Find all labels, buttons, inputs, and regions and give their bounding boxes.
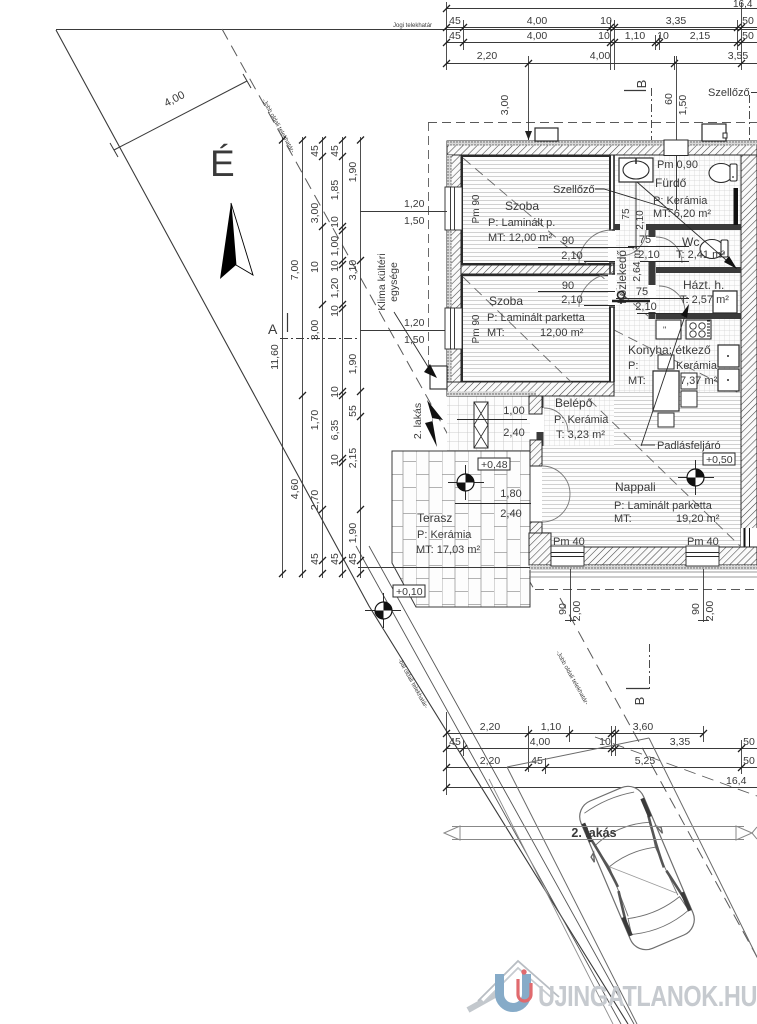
window dim vertical left — [557, 569, 583, 622]
svg-text:P: Kerámia: P: Kerámia — [554, 414, 609, 426]
svg-text:10: 10 — [329, 305, 341, 317]
svg-text:55: 55 — [347, 405, 359, 417]
svg-text:T: 2,41 m²: T: 2,41 m² — [676, 249, 725, 261]
svg-text:1,20: 1,20 — [404, 317, 425, 329]
window W1 — [445, 187, 462, 230]
svg-text:MT:: MT: — [487, 327, 505, 339]
window W2 — [445, 308, 462, 349]
svg-text:5,25: 5,25 — [635, 755, 656, 767]
survey marker boundary corner — [365, 593, 401, 628]
bottom chain labels row3 — [480, 755, 755, 767]
logo roof — [481, 962, 556, 999]
eaves dashed horizontal — [428, 122, 757, 124]
B section mark bottom — [626, 644, 650, 705]
svg-text:Kerámia: Kerámia — [676, 360, 718, 372]
svg-text:egysége: egysége — [388, 262, 400, 302]
top chain labels row2 — [449, 30, 754, 42]
furdo sink — [619, 158, 653, 248]
svg-text:7,37 m²: 7,37 m² — [680, 375, 718, 387]
svg-text:7,00: 7,00 — [289, 260, 301, 281]
svg-text:+0,10: +0,10 — [396, 586, 423, 598]
svg-text:2,40: 2,40 — [503, 427, 524, 439]
kitchen fridge cabinets — [718, 345, 739, 391]
klima outdoor unit — [430, 366, 447, 389]
szoba2 door jambs — [609, 274, 615, 307]
door marker circle — [618, 292, 625, 299]
svg-text:3,35: 3,35 — [666, 15, 687, 27]
svg-text:Szoba: Szoba — [489, 294, 523, 308]
svg-text:1,90: 1,90 — [347, 162, 359, 183]
parking second left line — [489, 779, 613, 1024]
svg-text:T: 3,23 m²: T: 3,23 m² — [556, 429, 605, 441]
bottom window BW2 — [686, 546, 719, 566]
svg-text:75: 75 — [621, 208, 632, 220]
svg-text:10: 10 — [329, 454, 341, 466]
svg-text:90: 90 — [562, 235, 574, 247]
svg-text:2,10: 2,10 — [561, 250, 582, 262]
svg-text:P:: P: — [628, 360, 638, 372]
bottom window BW1 — [551, 546, 584, 566]
svg-text:Közlekedő: Közlekedő — [617, 250, 629, 304]
wc door arc — [656, 237, 682, 263]
svg-text:2,00: 2,00 — [571, 601, 583, 622]
svg-text:2. lakás: 2. lakás — [571, 826, 616, 840]
svg-text:3,60: 3,60 — [633, 721, 654, 733]
svg-text:45: 45 — [309, 553, 321, 565]
bottom dimension chain lines — [446, 712, 757, 795]
svg-text:MT:: MT: — [614, 513, 632, 525]
svg-text:MT: 12,00 m²: MT: 12,00 m² — [488, 232, 553, 244]
right wall window gap — [741, 528, 757, 553]
belepo door arc — [544, 408, 568, 432]
left chain top ticks — [279, 137, 364, 578]
svg-text:2,10: 2,10 — [635, 210, 646, 230]
szellozo duct diagonal arrow — [637, 182, 733, 266]
svg-text:10: 10 — [657, 30, 669, 42]
furdo-wc wall — [614, 224, 741, 230]
door dim kitchen: 75/2,10 — [635, 286, 656, 313]
svg-text:10: 10 — [329, 216, 341, 228]
belepo left wall — [537, 396, 544, 446]
klima leader arrow — [394, 312, 430, 370]
svg-text:1,20: 1,20 — [329, 278, 341, 299]
svg-text:50: 50 — [742, 15, 754, 27]
site boundary north line — [56, 29, 757, 31]
parking left edge — [507, 767, 637, 1024]
svg-text:12,00 m²: 12,00 m² — [540, 327, 584, 339]
svg-text:Konyha: étkező: Konyha: étkező — [628, 343, 711, 357]
svg-text:3,35: 3,35 — [670, 736, 691, 748]
left wall insulation — [447, 155, 452, 396]
svg-text:Szellőző: Szellőző — [553, 184, 595, 196]
bottom wall corner pier — [529, 533, 551, 565]
svg-text:90: 90 — [690, 603, 702, 615]
roof hip dashed szoba2-nappali — [463, 277, 740, 546]
2.lakas banner band — [444, 826, 757, 840]
svg-text:1,10: 1,10 — [625, 30, 646, 42]
svg-text:Fürdő: Fürdő — [655, 176, 687, 190]
fence strip line 2 — [369, 546, 634, 1024]
shower dark bar — [734, 188, 739, 225]
svg-text:3,10: 3,10 — [347, 260, 359, 281]
watermark logo — [468, 961, 757, 1013]
top wall insulation — [447, 141, 757, 146]
B section dashdot top — [651, 88, 653, 140]
parking right edge — [649, 738, 757, 1024]
szoba1 floor — [461, 155, 610, 265]
svg-text:Pm 90: Pm 90 — [471, 314, 482, 343]
svg-text:1,70: 1,70 — [309, 410, 321, 431]
dashed SE diagonal boundary — [222, 29, 535, 591]
svg-text:10: 10 — [600, 15, 612, 27]
svg-text:MT:: MT: — [628, 375, 646, 387]
mid wall between szoba — [461, 265, 614, 274]
svg-text:1,90: 1,90 — [347, 354, 359, 375]
dashed boundary continues lower right — [560, 598, 757, 957]
level +0,48 — [478, 458, 510, 471]
shallow dashed SE — [595, 737, 757, 796]
svg-text:Belépő: Belépő — [555, 396, 593, 410]
svg-text:P: Laminált p.: P: Laminált p. — [488, 217, 555, 229]
svg-text:90: 90 — [562, 280, 574, 292]
szoba1 door jambs — [609, 230, 615, 263]
svg-text:1,00: 1,00 — [503, 405, 524, 417]
rooms right wall — [610, 155, 614, 382]
top wall — [447, 141, 757, 155]
west plot boundary line — [56, 30, 628, 1024]
bottom wall sill band — [529, 565, 757, 570]
svg-text:Klima kültéri: Klima kültéri — [376, 253, 388, 310]
svg-text:P: Laminált parketta: P: Laminált parketta — [487, 312, 586, 324]
svg-text:45: 45 — [347, 553, 359, 565]
svg-text:Jogi telekhatár: Jogi telekhatár — [393, 23, 432, 29]
svg-text:11,60: 11,60 — [269, 344, 281, 370]
window dim end dashes — [565, 620, 709, 622]
belepo floor — [544, 396, 614, 446]
svg-text:P: Kerámia: P: Kerámia — [653, 195, 708, 207]
nappali floor — [542, 392, 741, 547]
top chain ticks — [443, 5, 745, 67]
svg-text:+0,48: +0,48 — [481, 459, 508, 471]
terrace-nappali wall lower — [530, 522, 542, 547]
svg-text:45: 45 — [309, 145, 321, 157]
svg-text:MT: 17,03 m²: MT: 17,03 m² — [416, 544, 481, 556]
porch ladder box — [474, 402, 488, 448]
left wall — [447, 155, 461, 396]
hazt-konyha wall — [656, 313, 741, 319]
terrace-nappali wall upper — [530, 440, 542, 466]
svg-text:UJINGATLANOK.HU: UJINGATLANOK.HU — [538, 981, 757, 1013]
svg-text:2,15: 2,15 — [347, 448, 359, 469]
svg-text:Szoba: Szoba — [505, 199, 539, 213]
svg-text:2,10: 2,10 — [635, 301, 656, 313]
terrace floor — [392, 451, 530, 607]
szoba2 door arc — [579, 274, 612, 307]
svg-text:4,00: 4,00 — [530, 736, 551, 748]
svg-text:6,35: 6,35 — [329, 420, 341, 441]
szoba2 border — [462, 275, 610, 382]
x528 arrowhead — [525, 131, 532, 140]
survey marker nappali — [678, 460, 714, 495]
left chain labels — [269, 145, 359, 565]
fence strip line 1 — [356, 546, 621, 1024]
hazt floor — [656, 273, 741, 313]
svg-text:19,20 m²: 19,20 m² — [676, 513, 720, 525]
svg-text:2. lakás: 2. lakás — [412, 403, 424, 439]
right wall — [741, 155, 757, 569]
szellozo dashdot right — [749, 95, 751, 140]
door dim belepo 1,00/2,40 — [503, 405, 524, 439]
parking top edge — [507, 738, 649, 767]
svg-text:16,4: 16,4 — [726, 775, 747, 787]
level +0,10 — [393, 585, 425, 598]
logo red accent — [521, 969, 526, 974]
svg-text:2,10: 2,10 — [561, 294, 582, 306]
roof vent box 1 — [535, 128, 558, 141]
svg-text:45: 45 — [329, 553, 341, 565]
svg-text:1,90: 1,90 — [347, 523, 359, 544]
svg-text:10: 10 — [329, 260, 341, 272]
svg-text:10: 10 — [309, 261, 321, 273]
svg-text:2,40: 2,40 — [500, 508, 521, 520]
W1 dim leader — [360, 211, 447, 213]
top dimension chain lines — [446, 2, 757, 140]
terrace double door arcs — [542, 466, 570, 522]
door dim szoba1: 90/2,10 — [561, 235, 582, 262]
logo swoosh left — [468, 991, 502, 1010]
porch pier — [529, 396, 542, 414]
svg-text:Terasz: Terasz — [417, 511, 452, 525]
window dim vertical right — [690, 569, 716, 622]
north arrow — [220, 203, 253, 279]
kozlekedo floor — [614, 224, 648, 319]
svg-text:50: 50 — [742, 30, 754, 42]
chairs — [658, 355, 697, 427]
svg-text:2,10: 2,10 — [638, 249, 659, 261]
svg-text:1,80: 1,80 — [500, 488, 521, 500]
eaves dashed bottom horizontal — [535, 589, 757, 591]
svg-text:B: B — [634, 80, 649, 89]
svg-text:1,50: 1,50 — [677, 95, 689, 116]
svg-text:Szellőző: Szellőző — [708, 87, 750, 99]
wc-hazt wall — [656, 267, 741, 273]
furdo floor — [614, 155, 741, 224]
terrace south level line — [358, 567, 530, 569]
svg-text:2,20: 2,20 — [477, 50, 498, 62]
svg-text:10: 10 — [598, 30, 610, 42]
logo U blue — [500, 974, 527, 1008]
svg-text:4,60: 4,60 — [289, 479, 301, 500]
wc floor — [656, 230, 741, 267]
hazt washer — [713, 291, 737, 313]
svg-text:3,00: 3,00 — [309, 203, 321, 224]
svg-text:Pm 0,90: Pm 0,90 — [657, 159, 698, 171]
szoba2 door gap — [608, 274, 616, 307]
svg-text:1,50: 1,50 — [404, 215, 425, 227]
svg-text:MT: 6,20 m²: MT: 6,20 m² — [653, 208, 711, 220]
wc toilet — [700, 240, 728, 259]
svg-text:4,00: 4,00 — [590, 50, 611, 62]
svg-text:3,55: 3,55 — [728, 50, 749, 62]
svg-text:": " — [663, 325, 666, 335]
szoba1 border — [462, 156, 610, 264]
svg-text:4,00: 4,00 — [527, 30, 548, 42]
car — [571, 780, 703, 957]
svg-text:Pm 90: Pm 90 — [471, 194, 482, 223]
svg-text:50: 50 — [743, 736, 755, 748]
svg-text:+0,50: +0,50 — [706, 454, 733, 466]
bottom chain labels row1 — [480, 721, 654, 733]
konyha floor — [614, 319, 741, 392]
dining table — [653, 371, 679, 411]
szoba1 door gap — [608, 230, 616, 263]
svg-text:Házt. h.: Házt. h. — [683, 278, 724, 292]
svg-text:B: B — [632, 697, 647, 706]
kitchen counter sink — [656, 320, 681, 339]
4,00 crossbar between boundaries — [110, 74, 251, 157]
level +0,50 — [703, 453, 735, 466]
top chain labels row3 — [477, 50, 749, 62]
svg-text:45: 45 — [449, 736, 461, 748]
svg-text:10: 10 — [329, 386, 341, 398]
left dimension chain verticals — [283, 137, 361, 578]
furdo door arc — [620, 230, 646, 256]
svg-text:75: 75 — [636, 286, 648, 298]
svg-text:75: 75 — [639, 234, 651, 246]
door dim szoba2: 90/2,10 — [561, 280, 582, 306]
attic ladder arrow — [641, 307, 688, 446]
svg-text:2,20: 2,20 — [480, 721, 501, 733]
svg-text:3,00: 3,00 — [309, 320, 321, 341]
A section dashdot — [280, 338, 360, 340]
top wall duct gap — [664, 140, 688, 156]
svg-text:Padlásfeljáró: Padlásfeljáró — [657, 440, 721, 452]
svg-text:2,15: 2,15 — [690, 30, 711, 42]
svg-text:45: 45 — [449, 15, 461, 27]
survey marker terrace — [448, 465, 484, 500]
szoba2 bottom wall insulation — [447, 392, 536, 397]
svg-text:16,4: 16,4 — [733, 0, 753, 10]
svg-text:4,00: 4,00 — [527, 15, 548, 27]
roof hip dashed konyha — [614, 330, 757, 402]
svg-text:A: A — [268, 321, 278, 337]
svg-text:90: 90 — [557, 603, 569, 615]
svg-text:P: Laminált parketta: P: Laminált parketta — [614, 500, 713, 512]
szoba2 floor — [461, 274, 610, 382]
svg-text:Pm 40: Pm 40 — [553, 536, 585, 548]
bottom chain ticks — [443, 730, 745, 791]
svg-text:45: 45 — [449, 30, 461, 42]
svg-text:60: 60 — [663, 93, 675, 105]
svg-text:1,85: 1,85 — [329, 180, 341, 201]
svg-text:T: 2,57 m²: T: 2,57 m² — [680, 294, 729, 306]
bottom chain labels row2 — [449, 736, 755, 748]
svg-text:2,70: 2,70 — [309, 490, 321, 511]
svg-text:Pm 40: Pm 40 — [687, 536, 719, 548]
svg-text:2,20: 2,20 — [480, 755, 501, 767]
svg-text:2,00: 2,00 — [704, 601, 716, 622]
dim 1,20 1,50 upper window — [404, 198, 425, 227]
szoba2 bottom exterior wall — [447, 382, 614, 396]
svg-text:1,00: 1,00 — [329, 236, 341, 257]
step lines below bottom wall — [529, 572, 757, 577]
roof hip dashed szoba1 — [463, 158, 648, 316]
szoba1 door arc — [579, 230, 612, 263]
svg-text:Nappali: Nappali — [615, 480, 656, 494]
roof vent box 2 + nub — [702, 124, 727, 141]
bottom wall — [529, 547, 757, 565]
svg-text:1,20: 1,20 — [404, 198, 425, 210]
svg-text:P: Kerámia: P: Kerámia — [417, 529, 472, 541]
hazt door arc — [659, 286, 685, 312]
kitchen stove — [686, 320, 711, 339]
svg-text:3,00: 3,00 — [499, 95, 511, 116]
furdo toilet — [709, 164, 737, 183]
szellozo vertical line — [676, 56, 678, 462]
eaves dashed vertical — [428, 122, 430, 368]
svg-text:É: É — [210, 143, 235, 184]
door dim terrace 1,80/2,40 — [500, 488, 521, 520]
door leaf bar kitchen passage — [612, 300, 650, 303]
dim 1,20 1,50 lower window — [404, 317, 425, 346]
svg-text:45: 45 — [329, 145, 341, 157]
corridor right wall — [649, 230, 656, 319]
svg-text:50: 50 — [743, 755, 755, 767]
porch floor — [447, 396, 530, 451]
top chain labels row1 — [449, 15, 754, 27]
svg-text:1,10: 1,10 — [541, 721, 562, 733]
door dim wc: 75/2,10 — [638, 234, 659, 261]
